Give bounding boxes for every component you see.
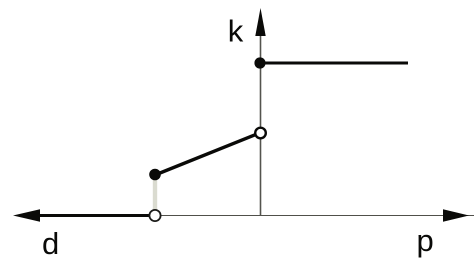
open circle on y-axis xyxy=(255,128,266,139)
x-axis thick left segment xyxy=(30,214,150,217)
svg-text:k: k xyxy=(228,13,244,48)
upper horizontal function segment xyxy=(260,62,408,65)
slanted function segment xyxy=(155,134,257,175)
x-axis thin right segment xyxy=(154,215,474,217)
y-axis arrowhead xyxy=(255,8,265,36)
y-axis line xyxy=(260,30,262,216)
filled dot on y-axis xyxy=(254,57,265,68)
light gray vertical connector xyxy=(153,178,157,211)
svg-text:p: p xyxy=(417,223,434,258)
open circle on x-axis xyxy=(149,210,160,221)
x-axis right arrowhead xyxy=(443,209,469,222)
x-axis left arrowhead xyxy=(13,209,40,222)
filled dot at segment start xyxy=(149,169,161,181)
svg-text:d: d xyxy=(42,226,59,261)
